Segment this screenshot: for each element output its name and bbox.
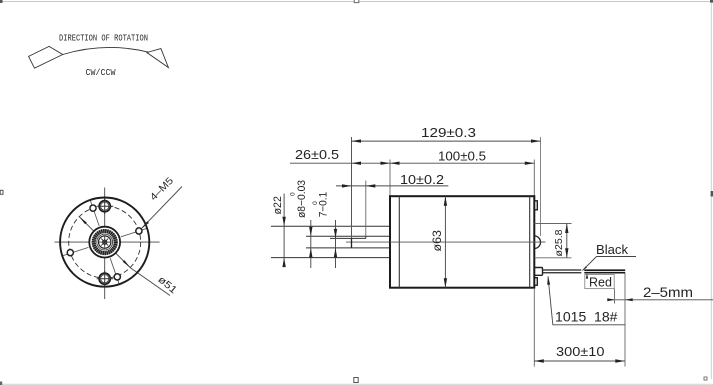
svg-text:1015 18#: 1015 18# [555,310,618,325]
dimension 129±0.3 [352,140,541,142]
svg-text:CW/CCW: CW/CCW [86,68,117,78]
sheet edge faint bottom line [0,383,713,385]
label Ø22 [272,196,284,215]
rotation arrowhead left (open) [29,46,63,68]
shaft bottom line [306,247,390,249]
extension line rear face [533,160,535,196]
registration mark right-middle [711,191,713,197]
outer circle (motor body) [60,198,149,287]
shaft top line Ø8 [306,235,390,237]
shaft center mark cross [104,237,106,248]
bolt hole left [67,250,73,256]
bolt-hole centerline 18deg right segment [121,228,147,237]
shaft inner small circle [103,240,107,244]
dimension 10±0.2 [336,185,448,187]
dimension 7 -0.1 [335,220,337,268]
svg-text:26±0.5: 26±0.5 [295,147,339,162]
svg-text:0: 0 [312,201,319,205]
svg-text:4–M5: 4–M5 [148,175,176,203]
bolt-hole centerline 109deg lower segment [110,258,119,284]
svg-text:10±0.2: 10±0.2 [400,172,444,187]
leader to Ø51 label [130,268,170,296]
label 4-M5 [148,175,176,203]
bolt hole right (4-M5 target) [136,228,142,234]
front boss Ø22 bottom line [271,257,390,259]
bearing circle [97,234,113,250]
arrowhead bolt-circle lower-right [123,260,131,268]
label Ø63 [432,230,444,252]
extension line 300 left [533,288,535,367]
svg-text:ø25.8: ø25.8 [553,229,565,256]
arrowhead bolt-circle upper-left [79,217,87,225]
svg-text:129±0.3: 129±0.3 [421,125,476,140]
svg-text:300±10: 300±10 [556,344,605,359]
svg-text:ø22: ø22 [272,196,284,215]
rear top tab [534,201,538,210]
shaft flat line [330,237,366,239]
dimension 300±10 [534,360,625,362]
knurled ring [94,231,116,253]
svg-text:0: 0 [290,192,297,196]
shaft center mark X diagonals [101,239,108,246]
centerline inside body [390,241,545,243]
label Ø25.8 [553,229,565,256]
svg-text:Black: Black [596,242,628,257]
extension line shaft end [351,137,353,238]
extension line front face [389,160,391,196]
rear bottom tab [534,278,538,286]
dimension Ø8 -0.03 [310,220,312,268]
registration mark top-middle [354,0,359,3]
svg-text:7−0.1: 7−0.1 [318,192,330,218]
bolt circle Ø51 (dashed) [69,206,141,278]
wires [543,269,582,271]
dimension Ø25.8 [535,223,572,225]
rotation arrowhead right (open) [147,49,169,68]
dimension 100±0.5 [390,162,534,164]
extension line flat end [365,181,367,237]
shaft flat step [365,236,367,238]
leader 4-M5 [141,187,182,229]
dimension 26±0.5 [290,162,390,164]
rear endcap inner line [529,196,531,288]
svg-text:100±0.5: 100±0.5 [438,148,486,163]
front endcap inner line [398,196,400,288]
registration mark bottom-right [704,377,707,380]
shaft circle [99,236,111,248]
svg-text:ø63: ø63 [432,230,444,252]
label Ø51 [156,274,180,296]
shaft end edge [351,238,353,248]
bolt hole lower-right [114,274,120,280]
registration mark bottom-middle [354,378,358,383]
sheet edge faint right line [710,0,712,379]
extension line rear bump [540,137,542,236]
registration mark bottom-left [0,382,2,385]
svg-text:ø8−0.03: ø8−0.03 [296,180,308,218]
bolt-hole centerline 18deg left segment [62,247,88,255]
bolt-hole centerline 109deg upper segment [90,200,99,226]
dimension Ø22 [283,194,285,267]
registration mark top-left [0,0,3,3]
center boss outer circle [89,227,120,258]
motor centerline [346,241,545,243]
front boss Ø22 top line [271,225,390,227]
svg-text:2–5mm: 2–5mm [643,285,693,300]
wire gland [534,268,543,276]
dimension 2-5mm [607,299,713,301]
horizontal centerline [55,241,160,243]
extension line wire end / 300 right [624,274,626,367]
label Red in box with arrow [585,275,614,289]
svg-text:DIRECTION OF ROTATION: DIRECTION OF ROTATION [59,34,148,44]
diameter line for bolt circle (45deg) [79,217,130,268]
label Ø8 0/-0.03 [296,180,308,218]
sheet edge faint top line [0,1,713,3]
dimension Ø63 line [444,196,446,288]
screw top (phillips) [99,201,110,212]
svg-text:Red: Red [589,275,612,290]
registration mark top-right [710,0,713,3]
label 7 0/-0.1 [318,192,330,218]
bolt hole upper-left [90,205,96,211]
arrowhead 4-M5 [141,221,149,229]
motor body outline [390,196,534,288]
vertical centerline [104,188,106,300]
screw bottom (phillips) [99,273,110,284]
registration mark left-middle [0,190,3,194]
rear bearing bump [534,236,540,249]
rotation arc [63,47,149,54]
